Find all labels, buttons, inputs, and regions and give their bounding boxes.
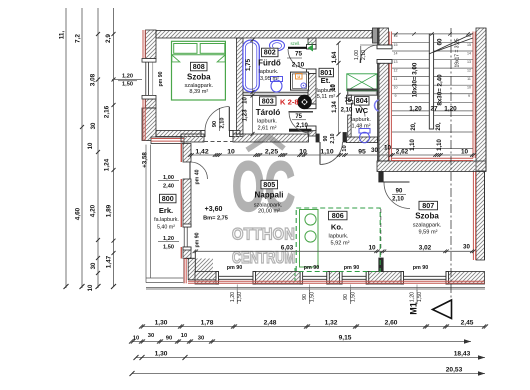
svg-text:1,20: 1,20 xyxy=(410,292,416,302)
svg-text:8,39 m²: 8,39 m² xyxy=(189,89,208,95)
svg-text:1,42: 1,42 xyxy=(195,148,208,155)
svg-text:2,48: 2,48 xyxy=(264,319,277,326)
svg-text:5,11 m²: 5,11 m² xyxy=(317,94,336,100)
svg-text:1,89: 1,89 xyxy=(106,204,113,217)
svg-text:20,: 20, xyxy=(411,122,417,131)
svg-text:7,2: 7,2 xyxy=(75,34,82,43)
svg-text:1,00: 1,00 xyxy=(163,175,174,181)
svg-text:1,24: 1,24 xyxy=(104,158,111,171)
svg-text:pm 90: pm 90 xyxy=(158,71,164,86)
svg-text:Ko.: Ko. xyxy=(331,222,343,231)
svg-text:2,10: 2,10 xyxy=(392,196,404,202)
svg-text:3,95 m²: 3,95 m² xyxy=(260,76,279,82)
svg-text:Bm= 2,75: Bm= 2,75 xyxy=(203,216,228,222)
svg-text:2,9: 2,9 xyxy=(105,34,112,43)
svg-text:lapburk.: lapburk. xyxy=(259,69,279,75)
svg-text:90: 90 xyxy=(343,294,349,300)
svg-text:11: 11 xyxy=(467,77,471,81)
svg-text:1,75: 1,75 xyxy=(245,58,252,71)
svg-text:1,20: 1,20 xyxy=(163,236,174,242)
svg-text:WC: WC xyxy=(355,106,368,115)
svg-text:9,15: 9,15 xyxy=(339,334,352,341)
svg-text:2,10: 2,10 xyxy=(296,123,308,129)
svg-text:9: 9 xyxy=(468,94,470,98)
svg-text:Tároló: Tároló xyxy=(256,108,281,117)
svg-text:Et.: Et. xyxy=(321,76,331,85)
svg-text:11,: 11, xyxy=(59,31,66,40)
svg-text:2,25: 2,25 xyxy=(265,148,278,155)
svg-text:pm 90: pm 90 xyxy=(413,265,429,271)
svg-text:803: 803 xyxy=(262,96,274,105)
svg-text:pm 90: pm 90 xyxy=(227,265,243,271)
svg-text:2,10: 2,10 xyxy=(341,108,353,114)
svg-text:1,64: 1,64 xyxy=(332,51,338,63)
svg-text:1,30: 1,30 xyxy=(155,350,168,357)
svg-text:1,50: 1,50 xyxy=(309,292,315,302)
svg-text:1,30: 1,30 xyxy=(155,319,168,326)
svg-text:9,59 m²: 9,59 m² xyxy=(419,229,438,235)
svg-text:szalagpark.: szalagpark. xyxy=(413,222,442,228)
svg-text:11: 11 xyxy=(394,77,398,81)
svg-text:15: 15 xyxy=(467,43,471,47)
svg-text:lapburk.: lapburk. xyxy=(329,233,349,239)
svg-text:K 2-8: K 2-8 xyxy=(280,97,299,106)
svg-text:10: 10 xyxy=(299,148,307,155)
svg-text:OTTHON: OTTHON xyxy=(232,225,295,244)
svg-text:+3,60: +3,60 xyxy=(205,206,223,213)
svg-text:10: 10 xyxy=(88,284,94,291)
svg-text:2,10: 2,10 xyxy=(292,62,305,69)
svg-text:30: 30 xyxy=(198,335,204,341)
svg-text:90: 90 xyxy=(323,136,329,142)
svg-text:12: 12 xyxy=(467,68,471,72)
svg-text:1,50: 1,50 xyxy=(163,245,174,251)
svg-text:1,10: 1,10 xyxy=(410,139,416,151)
svg-text:19x17 = 3,25: 19x17 = 3,25 xyxy=(455,38,461,67)
svg-text:4,60: 4,60 xyxy=(75,207,82,220)
svg-text:8x30= 2,40: 8x30= 2,40 xyxy=(437,74,444,106)
svg-text:6,03: 6,03 xyxy=(281,245,294,252)
svg-text:2,10: 2,10 xyxy=(220,118,226,129)
svg-text:2,40: 2,40 xyxy=(163,184,174,190)
svg-text:Fürdő: Fürdő xyxy=(258,58,281,67)
svg-text:90: 90 xyxy=(212,121,218,127)
svg-text:807: 807 xyxy=(422,201,434,210)
svg-text:pm 90: pm 90 xyxy=(195,232,201,247)
svg-text:z 2: z 2 xyxy=(307,41,313,46)
svg-text:2,61 m²: 2,61 m² xyxy=(258,126,277,132)
svg-text:M1: M1 xyxy=(409,302,419,315)
svg-text:13: 13 xyxy=(467,60,471,64)
svg-text:szell.: szell. xyxy=(290,41,300,46)
svg-text:2,60: 2,60 xyxy=(385,319,398,326)
svg-text:9: 9 xyxy=(395,94,397,98)
svg-text:27: 27 xyxy=(430,106,438,113)
svg-text:lapburk.: lapburk. xyxy=(257,119,277,125)
svg-text:805: 805 xyxy=(263,180,275,189)
svg-text:800: 800 xyxy=(162,194,174,203)
svg-text:30: 30 xyxy=(148,333,154,339)
svg-text:90: 90 xyxy=(302,294,308,300)
svg-text:1,20: 1,20 xyxy=(444,106,457,113)
svg-text:30: 30 xyxy=(91,262,97,269)
svg-text:20,00 m²: 20,00 m² xyxy=(258,208,280,214)
svg-text:12: 12 xyxy=(394,68,398,72)
svg-text:2,16: 2,16 xyxy=(104,105,111,118)
svg-text:75: 75 xyxy=(344,98,351,104)
svg-text:fa.lapburk.: fa.lapburk. xyxy=(154,217,179,223)
svg-text:5,40 m²: 5,40 m² xyxy=(157,224,175,230)
svg-text:10: 10 xyxy=(467,86,471,90)
svg-text:75: 75 xyxy=(295,114,302,120)
svg-text:10: 10 xyxy=(181,333,187,339)
svg-text:1,48 m²: 1,48 m² xyxy=(352,124,371,130)
svg-text:10: 10 xyxy=(384,145,392,152)
svg-text:3,02: 3,02 xyxy=(419,245,432,252)
svg-text:2,10: 2,10 xyxy=(330,133,336,143)
svg-text:20,53: 20,53 xyxy=(446,366,463,373)
svg-text:1,10: 1,10 xyxy=(437,139,443,151)
svg-text:802: 802 xyxy=(264,48,276,57)
svg-text:10: 10 xyxy=(88,142,94,149)
svg-text:90: 90 xyxy=(396,189,403,195)
svg-text:10: 10 xyxy=(394,86,398,90)
svg-text:806: 806 xyxy=(332,211,344,220)
svg-text:18,43: 18,43 xyxy=(454,350,471,357)
svg-text:1,50: 1,50 xyxy=(417,292,423,302)
svg-text:u: u xyxy=(297,74,300,79)
svg-text:10: 10 xyxy=(133,335,139,341)
svg-text:95: 95 xyxy=(358,148,366,155)
svg-text:Szoba: Szoba xyxy=(415,211,439,220)
svg-text:pm 40: pm 40 xyxy=(195,169,201,184)
svg-text:1,20: 1,20 xyxy=(122,74,133,80)
svg-text:+3,58: +3,58 xyxy=(142,152,149,168)
svg-text:2,10: 2,10 xyxy=(361,50,367,60)
svg-text:Erk.: Erk. xyxy=(159,206,173,215)
svg-text:10: 10 xyxy=(227,148,235,155)
svg-text:1,34: 1,34 xyxy=(332,101,338,113)
svg-text:1,32: 1,32 xyxy=(325,319,338,326)
svg-text:Szoba: Szoba xyxy=(187,72,211,81)
svg-text:14: 14 xyxy=(394,51,398,55)
svg-text:5,92 m²: 5,92 m² xyxy=(331,241,350,247)
svg-text:pm 90: pm 90 xyxy=(304,265,320,271)
svg-text:30: 30 xyxy=(371,147,378,154)
svg-text:1,00: 1,00 xyxy=(354,50,360,60)
svg-text:30: 30 xyxy=(463,244,470,251)
svg-text:30: 30 xyxy=(91,122,97,129)
svg-text:20,: 20, xyxy=(436,122,442,131)
svg-text:pm 90: pm 90 xyxy=(344,265,360,271)
svg-text:3,08: 3,08 xyxy=(90,73,97,86)
svg-text:15: 15 xyxy=(394,43,398,47)
svg-text:1,20: 1,20 xyxy=(409,106,422,113)
svg-text:14: 14 xyxy=(467,51,471,55)
svg-text:1,50: 1,50 xyxy=(350,292,356,302)
svg-text:808: 808 xyxy=(193,62,205,71)
svg-text:60: 60 xyxy=(437,38,444,45)
svg-text:1,50: 1,50 xyxy=(237,292,243,302)
svg-text:10: 10 xyxy=(243,97,249,104)
svg-text:4,20: 4,20 xyxy=(90,204,97,217)
svg-text:1,23: 1,23 xyxy=(242,109,249,122)
svg-text:10x30= 3,00: 10x30= 3,00 xyxy=(412,62,419,97)
svg-text:1,50: 1,50 xyxy=(122,82,133,88)
svg-text:10: 10 xyxy=(461,149,469,156)
svg-text:13: 13 xyxy=(394,60,398,64)
svg-text:1,20: 1,20 xyxy=(230,292,236,302)
svg-text:1,78: 1,78 xyxy=(201,319,214,326)
svg-text:10: 10 xyxy=(368,245,376,252)
svg-text:90: 90 xyxy=(166,335,172,341)
svg-text:2,45: 2,45 xyxy=(461,319,474,326)
svg-text:Nappali: Nappali xyxy=(255,190,284,199)
svg-text:2,62: 2,62 xyxy=(396,149,409,156)
svg-text:lapburk.: lapburk. xyxy=(351,117,371,123)
svg-text:1,10: 1,10 xyxy=(320,148,333,155)
svg-text:75: 75 xyxy=(295,51,303,58)
svg-text:10: 10 xyxy=(342,145,348,151)
svg-text:804: 804 xyxy=(356,96,368,105)
svg-text:1,47: 1,47 xyxy=(106,255,113,268)
